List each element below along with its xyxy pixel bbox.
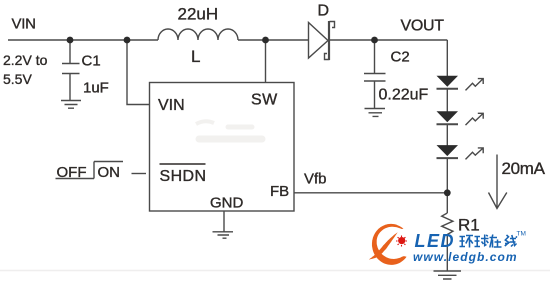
- wire FB to LED node: [294, 192, 447, 194]
- wire LED1-LED2: [446, 89, 448, 112]
- svg-text:VOUT: VOUT: [401, 18, 445, 35]
- LED D3 triangle: [437, 145, 459, 156]
- LED D1: [437, 88, 459, 90]
- LED D1 triangle: [437, 76, 459, 87]
- svg-text:GND: GND: [210, 195, 244, 212]
- svg-text:LED: LED: [415, 231, 456, 251]
- svg-text:C2: C2: [391, 49, 410, 66]
- svg-text:TM: TM: [517, 231, 526, 238]
- ground below R1: [434, 271, 462, 279]
- wire SHDN pin: [132, 173, 147, 175]
- wire C2 to ground: [374, 81, 376, 108]
- inductor L1 22uH: [158, 29, 238, 40]
- svg-text:5.5V: 5.5V: [3, 71, 32, 87]
- faint page edge line: [0, 270, 550, 272]
- wire diode to VOUT corner: [330, 39, 447, 41]
- wire VOUT corner down to LED1: [446, 40, 448, 76]
- IC U1 box: [150, 83, 295, 212]
- svg-text:D: D: [318, 3, 330, 20]
- svg-text:L: L: [191, 47, 200, 66]
- wire C2 branch: [374, 40, 376, 73]
- wire C1 to ground: [69, 74, 71, 101]
- svg-text:20mA: 20mA: [502, 159, 546, 178]
- node dot C1: [67, 37, 74, 44]
- LED D3: [437, 157, 459, 159]
- logo chinese char qiu: [475, 235, 489, 247]
- logo chinese char xian: [505, 235, 517, 247]
- svg-text:1uF: 1uF: [83, 80, 109, 97]
- LED light arrow 2: [466, 113, 484, 125]
- svg-text:www.ledgb.com: www.ledgb.com: [413, 250, 518, 264]
- svg-text:R1: R1: [458, 216, 480, 235]
- resistor R1: [442, 213, 453, 235]
- wire GND pin to ground: [223, 211, 225, 232]
- logo chinese char huan: [460, 236, 474, 248]
- svg-text:OFF: OFF: [57, 164, 87, 181]
- svg-text:22uH: 22uH: [178, 5, 219, 24]
- svg-text:SHDN: SHDN: [160, 168, 207, 185]
- wire inductor to diode: [238, 39, 308, 41]
- wire R1 to ground: [446, 235, 448, 272]
- logo chinese char zai: [490, 235, 502, 248]
- wire C1 branch: [69, 40, 71, 63]
- wire VIN top rail: [8, 39, 158, 41]
- ground below C1: [61, 101, 81, 109]
- svg-text:VIN: VIN: [12, 16, 36, 33]
- faint watermark ghost inside IC: [196, 121, 262, 139]
- node dot SW: [262, 37, 269, 44]
- capacitor C2 plates: [364, 74, 386, 82]
- ground below GND pin: [213, 232, 234, 238]
- wire FB node to resistor: [446, 193, 448, 213]
- LED light arrow 1: [466, 79, 484, 91]
- node dot VIN pin: [124, 37, 131, 44]
- svg-text:Vfb: Vfb: [304, 171, 327, 188]
- LED light arrow 3: [466, 148, 484, 160]
- LED D2: [437, 123, 459, 125]
- capacitor C1 plates: [62, 64, 80, 74]
- node dot FB: [444, 189, 451, 196]
- svg-text:C1: C1: [82, 53, 101, 70]
- LED D2 triangle: [437, 111, 459, 122]
- svg-text:0.22uF: 0.22uF: [379, 87, 429, 104]
- svg-text:ON: ON: [98, 164, 121, 181]
- overline SHDN: [160, 163, 206, 165]
- diode D schottky: [309, 21, 335, 60]
- wire LED3 to FB node: [446, 159, 448, 192]
- logo red dot: [396, 236, 407, 247]
- switch OFF/ON symbol: [56, 162, 124, 179]
- node dot C2: [371, 37, 378, 44]
- svg-text:FB: FB: [270, 183, 289, 200]
- svg-text:2.2V to: 2.2V to: [3, 52, 48, 68]
- 20mA current arrow: [489, 155, 507, 209]
- wire SW pin branch: [265, 40, 267, 82]
- svg-text:VIN: VIN: [158, 97, 185, 114]
- wire VIN pin branch: [127, 40, 150, 105]
- svg-text:SW: SW: [251, 92, 278, 109]
- logo icon swirl: [369, 224, 406, 265]
- wire LED2-LED3: [446, 125, 448, 146]
- ground below C2: [365, 109, 386, 117]
